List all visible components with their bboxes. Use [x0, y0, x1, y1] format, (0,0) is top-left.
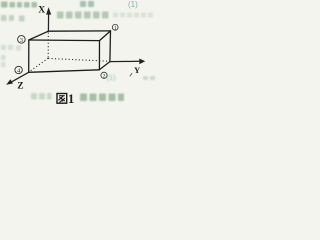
Z axis — [6, 72, 29, 85]
svg-text:X: X — [38, 5, 45, 15]
cuboid: hidden dotted edges — [29, 33, 108, 72]
the whole figure, slightly blurred like a scan — [6, 5, 145, 106]
faint bleed-through text top-right with (1) — [80, 1, 94, 7]
faint bleed-through text top-left — [1, 2, 37, 8]
svg-text:1: 1 — [114, 25, 117, 31]
circled 3 at front-top-left vertex — [18, 36, 26, 44]
cuboid: solid edges — [29, 31, 111, 72]
wire top-right depth edge B-D — [100, 31, 111, 41]
small dark speck right of circle 2 — [130, 73, 133, 77]
faint bleed-through text bottom-right — [80, 76, 155, 101]
wire bottom-right depth edge F-H — [99, 62, 110, 70]
svg-text:(1): (1) — [128, 0, 138, 9]
svg-text:Y: Y — [134, 65, 141, 75]
svg-text:(1): (1) — [107, 73, 117, 82]
wire front bottom edge E-F — [29, 70, 100, 73]
svg-text:Z: Z — [17, 82, 23, 92]
faint (1) next to circle 2 — [107, 73, 117, 82]
faint bleed-through text left edge — [1, 15, 25, 67]
faint bleed-through text bottom-left of caption — [31, 93, 52, 100]
X axis — [46, 7, 51, 31]
svg-text:3: 3 — [20, 37, 23, 44]
wire front top edge C-D — [29, 39, 100, 42]
caption: hanzi TU (figure) drawn as vector — [57, 94, 67, 104]
wire hidden back-left vertical A-G — [47, 33, 49, 59]
faint bleed-through text second line — [57, 12, 153, 19]
svg-text:2: 2 — [103, 74, 106, 80]
wire hidden bottom-left depth edge G-E — [29, 58, 48, 71]
Y axis — [110, 59, 145, 65]
wire hidden back bottom edge G-H — [48, 58, 109, 61]
wire front left vertical C-E — [28, 40, 30, 72]
circled 1 at top-right vertex — [112, 24, 118, 31]
wire front right vertical D-F — [98, 41, 100, 70]
circled 2 at bottom-right vertex — [101, 72, 107, 79]
svg-text:1: 1 — [68, 92, 74, 106]
background paper — [0, 0, 158, 108]
wire top back edge A-B — [48, 30, 110, 32]
wire back right vertical B-H — [109, 31, 112, 62]
wire top-left depth edge A-C — [29, 31, 49, 40]
circled 4 at front-bottom-left vertex — [15, 66, 22, 74]
